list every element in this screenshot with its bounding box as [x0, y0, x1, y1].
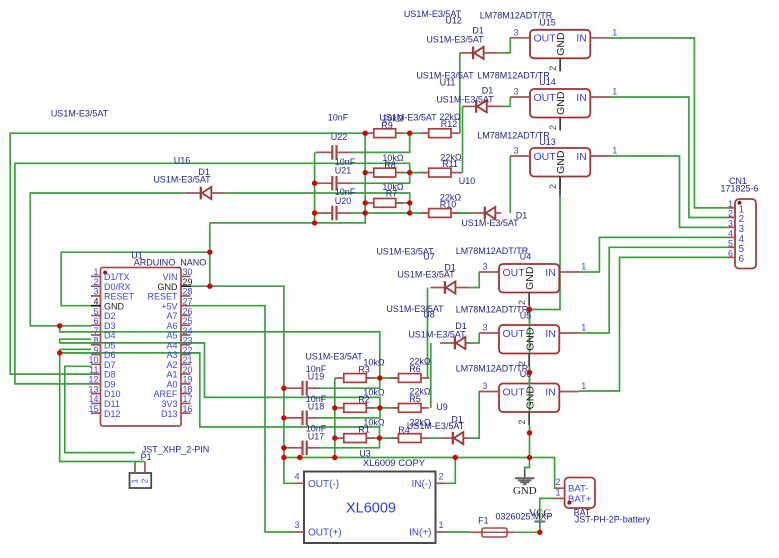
svg-text:D10: D10: [104, 389, 121, 399]
svg-text:P1: P1: [140, 452, 151, 462]
svg-text:IN: IN: [576, 92, 587, 104]
svg-text:IN(-): IN(-): [412, 479, 432, 490]
svg-text:R7: R7: [386, 188, 398, 198]
svg-text:1: 1: [581, 262, 586, 272]
svg-text:OUT: OUT: [503, 267, 526, 279]
svg-text:US1M-E3/5AT: US1M-E3/5AT: [461, 218, 519, 228]
svg-text:D12: D12: [104, 409, 121, 419]
svg-text:U3: U3: [359, 449, 371, 459]
svg-text:R5: R5: [409, 394, 421, 404]
svg-text:US1M-E3/5AT: US1M-E3/5AT: [153, 175, 211, 185]
svg-text:U7: U7: [423, 252, 435, 262]
svg-text:16: 16: [183, 404, 193, 414]
svg-text:R9: R9: [381, 121, 393, 131]
svg-text:7: 7: [93, 326, 98, 336]
svg-text:25: 25: [183, 316, 193, 326]
svg-text:RESET: RESET: [147, 292, 178, 302]
svg-text:3: 3: [482, 381, 487, 391]
svg-text:4: 4: [294, 472, 299, 482]
svg-text:LM78M12ADT/TR: LM78M12ADT/TR: [456, 246, 529, 256]
svg-text:3: 3: [482, 262, 487, 272]
svg-text:US1M-E3/5AT: US1M-E3/5AT: [426, 35, 484, 45]
svg-text:U16: U16: [174, 156, 191, 166]
svg-text:26: 26: [183, 306, 193, 316]
svg-text:U12: U12: [445, 16, 462, 26]
svg-text:OUT(-): OUT(-): [308, 479, 339, 490]
svg-text:U21: U21: [335, 166, 352, 176]
svg-text:1: 1: [612, 146, 617, 156]
svg-text:6: 6: [728, 248, 733, 258]
svg-text:10nF: 10nF: [328, 113, 349, 123]
svg-text:20: 20: [183, 365, 193, 375]
svg-text:2: 2: [438, 472, 443, 482]
svg-text:IN(+): IN(+): [409, 528, 432, 539]
svg-text:R3: R3: [358, 365, 370, 375]
svg-text:A2: A2: [166, 360, 177, 370]
svg-text:2: 2: [555, 477, 560, 487]
svg-text:A6: A6: [166, 321, 177, 331]
svg-text:2: 2: [548, 184, 558, 189]
svg-text:A0: A0: [166, 379, 177, 389]
svg-text:1: 1: [728, 199, 733, 209]
svg-text:LM78M12ADT/TR: LM78M12ADT/TR: [456, 364, 529, 374]
svg-text:A5: A5: [166, 331, 177, 341]
svg-text:1: 1: [581, 381, 586, 391]
svg-text:AREF: AREF: [153, 389, 178, 399]
svg-text:IN: IN: [576, 151, 587, 163]
svg-text:U8: U8: [423, 310, 435, 320]
svg-text:1: 1: [555, 488, 560, 498]
svg-text:4: 4: [728, 228, 733, 238]
svg-text:5: 5: [728, 238, 733, 248]
svg-text:R11: R11: [442, 159, 458, 169]
svg-text:US1M-E3/5AT: US1M-E3/5AT: [408, 330, 466, 340]
svg-text:GND: GND: [555, 32, 567, 56]
svg-text:D3: D3: [104, 321, 116, 331]
svg-text:1: 1: [130, 478, 140, 483]
svg-text:1: 1: [612, 27, 617, 37]
svg-text:22kΩ: 22kΩ: [409, 418, 431, 428]
svg-text:US1M-E3/5AT: US1M-E3/5AT: [436, 95, 494, 105]
svg-text:21: 21: [183, 355, 193, 365]
svg-text:15: 15: [88, 404, 98, 414]
svg-text:3: 3: [728, 218, 733, 228]
svg-text:GND: GND: [555, 91, 567, 115]
svg-text:9: 9: [93, 345, 98, 355]
svg-text:+5V: +5V: [161, 301, 177, 311]
svg-text:U11: U11: [440, 78, 456, 88]
svg-text:3: 3: [513, 146, 518, 156]
svg-text:18: 18: [183, 384, 193, 394]
svg-text:2: 2: [140, 478, 150, 483]
svg-text:U20: U20: [335, 196, 352, 206]
svg-text:3: 3: [513, 87, 518, 97]
svg-text:U15: U15: [539, 18, 556, 28]
svg-text:23: 23: [183, 336, 193, 346]
svg-text:GND: GND: [524, 266, 536, 290]
svg-text:R1: R1: [358, 425, 370, 435]
svg-text:1: 1: [438, 520, 443, 530]
svg-text:VCC: VCC: [529, 509, 551, 520]
svg-text:JST_XHP_2-PIN: JST_XHP_2-PIN: [142, 445, 210, 455]
svg-text:U14: U14: [539, 77, 556, 87]
svg-text:D5: D5: [104, 340, 116, 350]
svg-text:U4: U4: [520, 252, 532, 262]
svg-text:1: 1: [612, 87, 617, 97]
svg-text:3: 3: [294, 520, 299, 530]
svg-text:A3: A3: [166, 350, 177, 360]
svg-text:VIN: VIN: [162, 272, 177, 282]
svg-text:R12: R12: [441, 119, 458, 129]
svg-text:ARDUINO_NANO: ARDUINO_NANO: [134, 257, 207, 267]
svg-text:10: 10: [88, 355, 98, 365]
svg-text:GND: GND: [104, 301, 125, 311]
svg-text:US1M-E3/5AT: US1M-E3/5AT: [305, 352, 363, 362]
svg-text:3V3: 3V3: [161, 399, 177, 409]
svg-text:17: 17: [183, 394, 193, 404]
svg-text:U10: U10: [459, 176, 476, 186]
svg-text:D0/RX: D0/RX: [104, 282, 131, 292]
svg-text:D6: D6: [104, 350, 116, 360]
svg-text:A1: A1: [166, 370, 177, 380]
svg-text:29: 29: [183, 277, 193, 287]
svg-text:D1/TX: D1/TX: [104, 272, 130, 282]
svg-text:F1: F1: [478, 516, 489, 526]
svg-text:US1M-E3/5AT: US1M-E3/5AT: [51, 109, 109, 119]
svg-text:OUT: OUT: [503, 328, 526, 340]
svg-text:IN: IN: [545, 267, 556, 279]
svg-text:2: 2: [728, 209, 733, 219]
svg-text:6: 6: [93, 316, 98, 326]
svg-text:U9: U9: [436, 402, 448, 412]
svg-text:8: 8: [93, 336, 98, 346]
svg-text:JST-PH-2P-battery: JST-PH-2P-battery: [575, 515, 651, 525]
svg-text:OUT: OUT: [534, 92, 557, 104]
svg-text:OUT: OUT: [534, 151, 557, 163]
svg-text:13: 13: [88, 384, 98, 394]
svg-text:IN: IN: [545, 386, 556, 398]
svg-text:171825-6: 171825-6: [720, 184, 758, 194]
svg-text:XL6009 COPY: XL6009 COPY: [363, 458, 426, 469]
svg-text:2: 2: [548, 125, 558, 130]
svg-text:A4: A4: [166, 340, 177, 350]
svg-text:GND: GND: [513, 485, 537, 497]
svg-text:RESET: RESET: [104, 292, 135, 302]
svg-text:BAT+: BAT+: [568, 494, 592, 505]
svg-text:D9: D9: [104, 379, 116, 389]
svg-text:D4: D4: [104, 331, 116, 341]
svg-text:US1M-E3/5AT: US1M-E3/5AT: [397, 270, 455, 280]
svg-text:D13: D13: [161, 409, 178, 419]
svg-text:5: 5: [93, 306, 98, 316]
svg-text:12: 12: [88, 375, 98, 385]
svg-text:22: 22: [183, 345, 193, 355]
svg-text:GND: GND: [524, 386, 536, 410]
svg-text:U22: U22: [331, 132, 348, 142]
svg-text:U18: U18: [308, 402, 325, 412]
svg-text:28: 28: [183, 287, 193, 297]
svg-text:2: 2: [517, 419, 527, 424]
svg-text:OUT: OUT: [534, 33, 557, 45]
svg-text:XL6009: XL6009: [346, 501, 396, 517]
svg-text:30: 30: [183, 267, 193, 277]
svg-text:D8: D8: [104, 370, 116, 380]
svg-text:19: 19: [183, 375, 193, 385]
svg-text:3: 3: [93, 287, 98, 297]
svg-text:IN: IN: [576, 33, 587, 45]
svg-text:4: 4: [93, 297, 98, 307]
svg-text:LM78M12ADT/TR: LM78M12ADT/TR: [456, 305, 529, 315]
svg-text:1: 1: [93, 267, 98, 277]
svg-text:R10: R10: [440, 199, 457, 209]
svg-text:27: 27: [183, 297, 193, 307]
svg-text:US1M-E3/5AT: US1M-E3/5AT: [386, 304, 444, 314]
svg-text:OUT(+): OUT(+): [308, 528, 342, 539]
svg-text:GND: GND: [524, 327, 536, 351]
svg-text:IN: IN: [545, 328, 556, 340]
svg-text:3: 3: [482, 323, 487, 333]
svg-text:11: 11: [89, 365, 98, 375]
svg-text:D11: D11: [104, 399, 120, 409]
svg-text:U19: U19: [308, 372, 325, 382]
svg-text:GND: GND: [158, 282, 179, 292]
svg-text:R4: R4: [398, 425, 410, 435]
svg-text:R2: R2: [358, 394, 370, 404]
svg-text:1: 1: [581, 323, 586, 333]
svg-text:R8: R8: [384, 160, 396, 170]
svg-text:3: 3: [513, 27, 518, 37]
svg-text:U13: U13: [539, 137, 556, 147]
svg-text:GND: GND: [555, 150, 567, 174]
svg-text:14: 14: [88, 394, 98, 404]
svg-text:R6: R6: [409, 364, 421, 374]
svg-text:2: 2: [93, 277, 98, 287]
svg-text:A7: A7: [166, 311, 177, 321]
svg-text:D2: D2: [104, 311, 116, 321]
svg-text:6: 6: [739, 254, 745, 265]
svg-text:U17: U17: [308, 432, 325, 442]
svg-text:D7: D7: [104, 360, 116, 370]
svg-text:OUT: OUT: [503, 386, 526, 398]
svg-text:24: 24: [183, 326, 193, 336]
